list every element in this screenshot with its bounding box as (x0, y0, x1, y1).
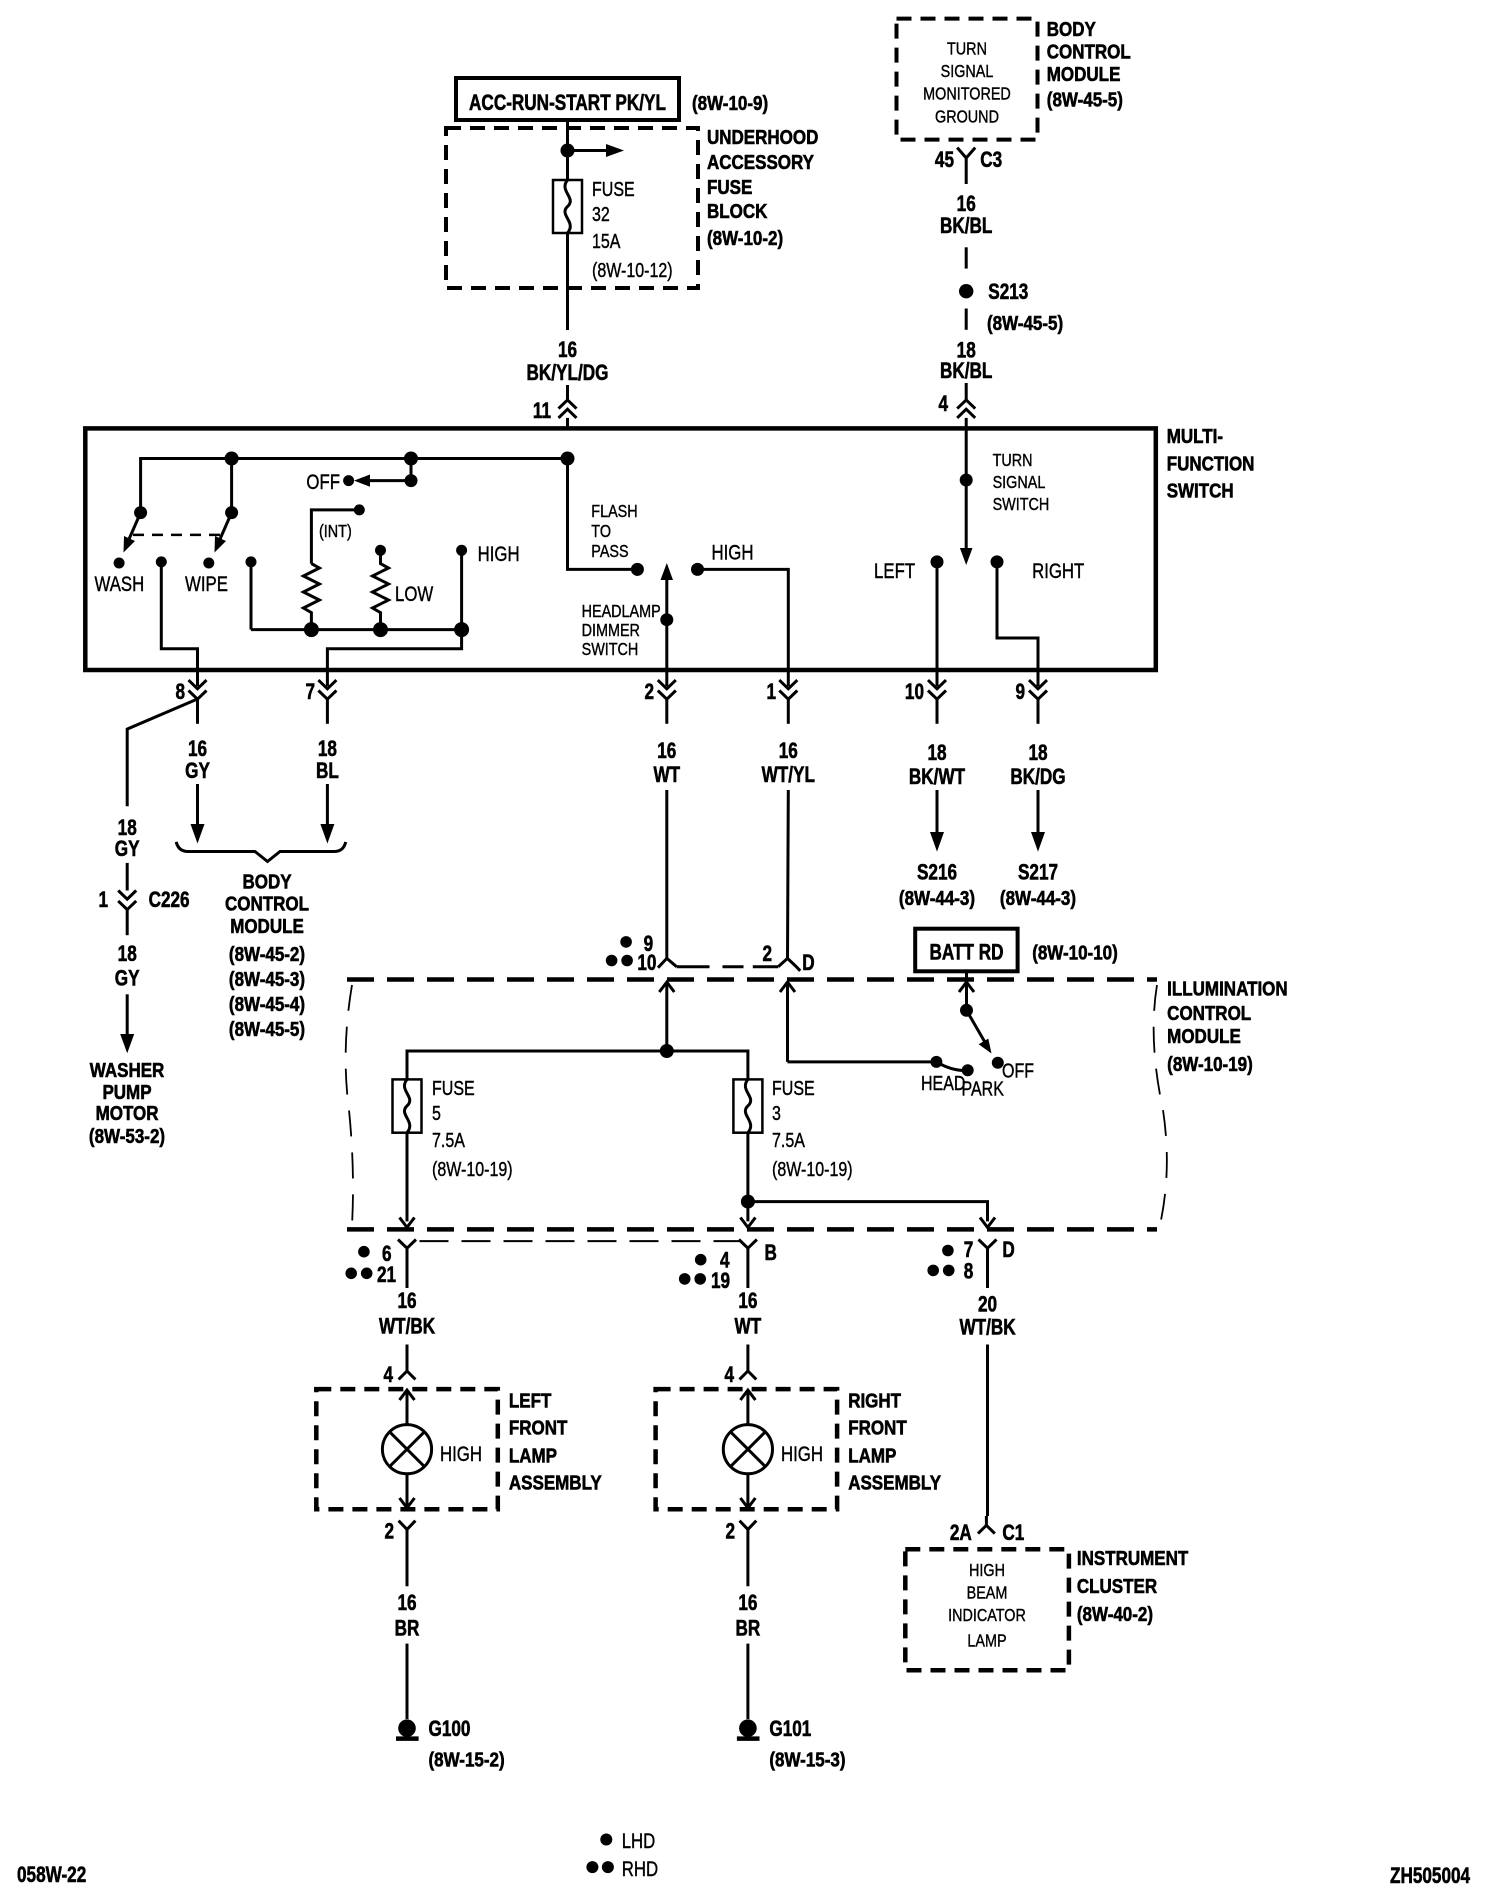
feed rail to fuses (407, 1051, 748, 1079)
svg-text:CONTROL: CONTROL (225, 892, 309, 915)
svg-text:18: 18 (927, 741, 946, 766)
LHD marker (600, 1834, 612, 1846)
svg-text:FUSE: FUSE (592, 178, 635, 200)
wire 18 BL below label with arrow to BCM (326, 784, 329, 830)
svg-text:8: 8 (964, 1259, 974, 1284)
svg-text:ACCESSORY: ACCESSORY (707, 151, 815, 174)
wipe switch arm (217, 513, 232, 546)
wire dimmer to pin 2 (665, 620, 668, 670)
svg-text:3: 3 (772, 1102, 781, 1124)
svg-text:(8W-44-3): (8W-44-3) (1000, 886, 1076, 909)
pin 7 dot + label (942, 1245, 954, 1257)
branch wire to D exit (748, 1202, 988, 1222)
svg-text:(8W-10-19): (8W-10-19) (432, 1158, 513, 1180)
svg-text:GY: GY (115, 967, 140, 992)
svg-text:CONTROL: CONTROL (1047, 40, 1131, 63)
headlamp switch arm (967, 1010, 987, 1044)
entry arrow from fork 10 (659, 982, 674, 1051)
svg-text:LEFT: LEFT (509, 1389, 552, 1412)
wiper output contact (156, 556, 167, 567)
wire below fork D (986, 1254, 989, 1289)
svg-text:BATT RD: BATT RD (930, 940, 1004, 965)
svg-text:WT: WT (653, 763, 680, 788)
wash switch pivot (134, 506, 147, 519)
wire 20 WT/BK down (986, 1345, 989, 1517)
svg-text:WT/BK: WT/BK (379, 1314, 436, 1339)
svg-text:CLUSTER: CLUSTER (1077, 1575, 1158, 1598)
svg-text:RIGHT: RIGHT (848, 1389, 901, 1412)
fork pin 6 (398, 1240, 416, 1254)
entry arrow from BATT RD (959, 971, 974, 1010)
pin 8 dots + label (927, 1265, 939, 1277)
svg-text:MODULE: MODULE (1047, 63, 1121, 86)
arrow to OFF (364, 479, 411, 482)
svg-text:(8W-10-2): (8W-10-2) (707, 227, 783, 250)
svg-text:4: 4 (938, 392, 948, 417)
rail junction LOW (373, 622, 388, 637)
svg-text:FUNCTION: FUNCTION (1167, 452, 1255, 475)
wire to bulb (406, 1390, 409, 1425)
wire fuse3 down (746, 1133, 749, 1222)
wire 16 GY below label with arrow to BCM (196, 784, 199, 830)
svg-text:BK/DG: BK/DG (1010, 765, 1065, 790)
fork 4 to lamp (399, 1371, 416, 1379)
svg-text:PASS: PASS (591, 542, 628, 562)
svg-text:DIMMER: DIMMER (582, 621, 640, 641)
resistor bottom rail (251, 628, 462, 631)
wire to bulb (746, 1390, 749, 1425)
svg-text:7: 7 (305, 680, 315, 705)
svg-text:LHD: LHD (622, 1830, 656, 1853)
wire 16 WT/YL down to fork D (786, 790, 790, 958)
svg-text:S213: S213 (988, 280, 1028, 305)
wash contact dot (114, 558, 125, 569)
svg-text:MODULE: MODULE (1167, 1025, 1241, 1048)
svg-text:16: 16 (397, 1591, 416, 1616)
svg-text:S216: S216 (917, 861, 957, 886)
wire left to pin 10 (936, 562, 939, 670)
junction rail / wire 10 (660, 1044, 674, 1058)
pin 8 connector (175, 670, 206, 724)
svg-text:BODY: BODY (243, 870, 293, 893)
svg-text:C3: C3 (980, 148, 1002, 173)
PARK contact dot (962, 1064, 974, 1076)
left front lamp assembly dashed box (316, 1389, 498, 1509)
wire rail to pin 7 (327, 630, 461, 670)
fuse 3 7.5A (733, 1079, 762, 1132)
svg-text:LOW: LOW (395, 583, 433, 606)
exit arrow fuse5 (400, 1218, 415, 1228)
svg-text:G101: G101 (769, 1717, 811, 1742)
RHD dashed link (677, 965, 779, 968)
OFF contact dot (343, 475, 354, 486)
svg-text:1: 1 (766, 680, 776, 705)
svg-text:UNDERHOOD: UNDERHOOD (707, 126, 818, 149)
wire segment below splice (965, 309, 968, 330)
fork pin 2 D (778, 958, 800, 970)
svg-text:19: 19 (711, 1269, 730, 1294)
svg-text:16: 16 (779, 739, 798, 764)
exit arrow (740, 1498, 755, 1508)
svg-text:LAMP: LAMP (509, 1444, 557, 1467)
instrument cluster dashed box (905, 1549, 1069, 1670)
svg-text:BR: BR (395, 1617, 420, 1642)
svg-text:18: 18 (318, 737, 337, 762)
module right torn edge (1154, 985, 1167, 1225)
svg-text:10: 10 (637, 951, 656, 976)
svg-text:(8W-45-2): (8W-45-2) (229, 943, 305, 966)
svg-text:MODULE: MODULE (230, 915, 304, 938)
svg-text:GY: GY (115, 837, 140, 862)
svg-text:16: 16 (397, 1289, 416, 1314)
svg-text:ILLUMINATION: ILLUMINATION (1167, 977, 1287, 1000)
svg-text:B: B (764, 1241, 776, 1266)
svg-text:ACC-RUN-START PK/YL: ACC-RUN-START PK/YL (469, 91, 666, 116)
svg-text:TURN: TURN (947, 39, 987, 59)
svg-text:8: 8 (175, 680, 185, 705)
high beam bulb (723, 1425, 772, 1474)
connector chevrons pin 11 (559, 400, 577, 418)
svg-text:SIGNAL: SIGNAL (941, 62, 994, 82)
svg-text:058W-22: 058W-22 (17, 1863, 86, 1888)
OFF contact dot (992, 1057, 1004, 1069)
power feed box ACC-RUN-START PK/YL (456, 78, 679, 120)
pin 10 dot markers (606, 955, 618, 967)
svg-text:7.5A: 7.5A (772, 1129, 806, 1151)
svg-text:SWITCH: SWITCH (582, 640, 639, 660)
svg-text:HIGH: HIGH (478, 543, 520, 566)
svg-text:LAMP: LAMP (848, 1444, 896, 1467)
ground G100 (396, 1719, 419, 1738)
svg-text:(8W-44-3): (8W-44-3) (899, 886, 975, 909)
wire bulb to exit (746, 1474, 749, 1508)
svg-text:D: D (1002, 1238, 1014, 1263)
svg-text:OFF: OFF (1002, 1060, 1034, 1082)
svg-text:2: 2 (384, 1519, 394, 1544)
svg-text:PARK: PARK (962, 1078, 1004, 1100)
svg-text:RHD: RHD (622, 1858, 658, 1881)
BCM brace (176, 842, 346, 862)
svg-text:HEADLAMP: HEADLAMP (582, 602, 661, 622)
svg-text:HIGH: HIGH (781, 1443, 823, 1466)
pin 9 dot marker (620, 936, 632, 948)
branch arrow to other circuits (574, 149, 612, 152)
splice S213 (959, 284, 973, 298)
wire below fork 6 (406, 1254, 409, 1289)
svg-text:(8W-10-12): (8W-10-12) (592, 259, 673, 281)
svg-text:FUSE: FUSE (707, 176, 752, 199)
svg-text:WASH: WASH (95, 573, 145, 596)
junction fuse3 branch (741, 1195, 755, 1209)
pin 6 dot + label (358, 1246, 370, 1258)
wire chevron to box (566, 418, 569, 430)
svg-text:C226: C226 (149, 888, 190, 913)
svg-text:OFF: OFF (306, 471, 340, 494)
headlamp switch pivot (960, 1004, 973, 1017)
connector chevrons pin 4 (957, 400, 975, 418)
ground G101 (737, 1719, 760, 1738)
pin 21 dots + label (345, 1268, 357, 1280)
wire wash output to pin 8 (161, 562, 197, 670)
svg-text:WT/YL: WT/YL (762, 763, 815, 788)
wire high beam to pin 1 (698, 569, 789, 670)
svg-text:16: 16 (657, 739, 676, 764)
connector chevrons C226 (118, 891, 136, 910)
svg-text:(8W-10-19): (8W-10-19) (772, 1158, 853, 1180)
svg-text:FUSE: FUSE (772, 1077, 815, 1099)
wire fuse5 to exit arrow (406, 1133, 409, 1222)
pin 10 connector (905, 670, 946, 724)
svg-text:ZH505004: ZH505004 (1390, 1864, 1470, 1889)
svg-text:(8W-45-5): (8W-45-5) (987, 312, 1063, 335)
multi-function switch box (85, 428, 1156, 670)
svg-text:18: 18 (118, 942, 137, 967)
BCM turn signal monitored ground dashed box (897, 19, 1038, 140)
svg-text:BK/BL: BK/BL (940, 359, 992, 384)
wire to C226 (126, 863, 129, 891)
wash switch arm (126, 513, 141, 546)
svg-text:GY: GY (185, 759, 210, 784)
high beam bulb (382, 1425, 431, 1474)
svg-text:SIGNAL: SIGNAL (993, 473, 1046, 493)
svg-text:45: 45 (935, 148, 954, 173)
wire below C226 (126, 910, 129, 936)
svg-text:HIGH: HIGH (969, 1560, 1005, 1580)
exit arrow (400, 1498, 415, 1508)
svg-text:(INT): (INT) (319, 522, 352, 542)
svg-text:MULTI-: MULTI- (1167, 425, 1223, 448)
turn signal feed wire with arrow (965, 430, 968, 552)
svg-text:18: 18 (1028, 741, 1047, 766)
svg-text:BK/YL/DG: BK/YL/DG (527, 361, 609, 386)
entry arrow from fork D (780, 982, 795, 1062)
svg-text:FRONT: FRONT (848, 1416, 907, 1439)
fork pin 10 (658, 958, 677, 967)
svg-text:BEAM: BEAM (967, 1583, 1008, 1603)
wire chevron to box (965, 418, 968, 430)
svg-text:FUSE: FUSE (432, 1077, 475, 1099)
svg-text:2: 2 (762, 942, 772, 967)
svg-text:ASSEMBLY: ASSEMBLY (509, 1471, 602, 1494)
fork 2 below lamp (399, 1521, 416, 1587)
svg-text:G100: G100 (428, 1717, 470, 1742)
module top dashed border (347, 977, 1157, 982)
mechanical link dashed (133, 534, 222, 537)
svg-text:LEFT: LEFT (874, 560, 915, 583)
wire into MFS pin 4 (965, 383, 968, 400)
fuse 5 7.5A (393, 1079, 422, 1132)
svg-text:21: 21 (377, 1263, 396, 1288)
wire from ACC box into fuse block (566, 120, 569, 180)
turn signal pivot node (960, 474, 973, 487)
RHD marker (586, 1861, 598, 1873)
svg-text:(8W-10-19): (8W-10-19) (1167, 1053, 1253, 1076)
HIGH beam contact dot (691, 563, 704, 576)
junction node (561, 144, 575, 158)
svg-text:(8W-53-2): (8W-53-2) (89, 1125, 165, 1148)
svg-text:2: 2 (644, 680, 654, 705)
rail junction INT (304, 622, 319, 637)
svg-text:ASSEMBLY: ASSEMBLY (848, 1471, 941, 1494)
svg-text:1: 1 (98, 888, 108, 913)
svg-text:2: 2 (725, 1519, 735, 1544)
svg-text:(8W-40-2): (8W-40-2) (1077, 1603, 1153, 1626)
HEAD contact dot (930, 1056, 942, 1068)
pin 9 connector (1015, 670, 1047, 724)
svg-text:BK/WT: BK/WT (909, 765, 965, 790)
fork pin 4 B (739, 1240, 757, 1254)
module bottom dashed border (347, 1227, 1157, 1232)
svg-text:HEAD: HEAD (921, 1072, 965, 1094)
HIGH wiper contact dot (456, 545, 467, 556)
svg-text:SWITCH: SWITCH (1167, 479, 1234, 502)
svg-text:9: 9 (1015, 680, 1025, 705)
wipe low-speed contact (246, 556, 257, 567)
underhood accessory fuse block dashed box (446, 128, 698, 288)
svg-text:GROUND: GROUND (935, 107, 999, 127)
wire to lamp connector 4 (406, 1345, 409, 1372)
svg-text:16: 16 (738, 1289, 757, 1314)
pin 1 connector (766, 670, 797, 724)
svg-text:LAMP: LAMP (967, 1631, 1006, 1651)
INT contact dot (354, 504, 365, 515)
svg-text:D: D (802, 951, 814, 976)
flash-to-pass contact dot (631, 563, 644, 576)
svg-text:INDICATOR: INDICATOR (948, 1606, 1026, 1626)
svg-text:(8W-45-3): (8W-45-3) (229, 968, 305, 991)
rail junction HIGH (454, 622, 469, 637)
wire below fork B (746, 1254, 749, 1289)
wire right to pin 9 (997, 562, 1038, 670)
entry arrow into lamp (740, 1390, 755, 1400)
wire into MFS pin 11 (566, 385, 569, 400)
svg-text:HIGH: HIGH (712, 542, 754, 565)
svg-text:16: 16 (188, 737, 207, 762)
svg-text:(8W-10-9): (8W-10-9) (692, 92, 768, 115)
svg-text:TURN: TURN (993, 451, 1033, 471)
svg-text:BODY: BODY (1047, 18, 1097, 41)
pin 4 dot + label (695, 1254, 707, 1266)
wire segment above splice (965, 247, 968, 268)
wire D-branch to HEAD (788, 1060, 937, 1063)
svg-text:11: 11 (533, 399, 551, 424)
svg-text:HIGH: HIGH (440, 1443, 482, 1466)
wire with arrow to washer pump (126, 994, 129, 1040)
svg-text:(8W-45-4): (8W-45-4) (229, 993, 305, 1016)
svg-text:WIPE: WIPE (185, 573, 228, 596)
svg-text:7.5A: 7.5A (432, 1129, 466, 1151)
diagonal wire pin8 to washer branch (127, 700, 196, 807)
svg-text:4: 4 (383, 1363, 393, 1388)
LEFT contact dot (931, 555, 944, 568)
wire below C3 (965, 173, 968, 184)
svg-text:20: 20 (978, 1293, 997, 1318)
selector track HEAD-PARK (936, 1062, 967, 1071)
svg-text:SWITCH: SWITCH (993, 495, 1050, 515)
wipe contact dot (203, 558, 214, 569)
wire 18 BK/WT arrow to S216 (936, 790, 939, 838)
svg-text:4: 4 (724, 1363, 734, 1388)
svg-text:MOTOR: MOTOR (96, 1102, 159, 1125)
wire to resistor rail (250, 562, 253, 630)
LOW contact dot (375, 545, 386, 556)
svg-text:16: 16 (558, 338, 577, 363)
fork 4 to lamp (740, 1371, 757, 1379)
wire to ground (746, 1644, 749, 1719)
svg-text:FLASH: FLASH (591, 502, 637, 522)
wire wipe pivot (230, 459, 233, 513)
wire HIGH to rail (460, 550, 463, 629)
wire to lamp connector 4 (746, 1345, 749, 1372)
svg-text:(8W-15-3): (8W-15-3) (769, 1748, 845, 1771)
wire 18 BK/DG arrow to S217 (1037, 790, 1040, 838)
off contact node (405, 474, 418, 487)
svg-text:PUMP: PUMP (102, 1081, 151, 1104)
svg-text:INSTRUMENT: INSTRUMENT (1077, 1547, 1189, 1570)
INT resistor (303, 510, 359, 630)
svg-text:32: 32 (592, 203, 610, 225)
fork 2 below lamp (740, 1521, 757, 1587)
svg-text:BLOCK: BLOCK (707, 200, 768, 223)
junction off branch (404, 452, 418, 466)
wire to ground (406, 1644, 409, 1719)
junction wipe branch (225, 452, 239, 466)
entry arrow into lamp (400, 1390, 415, 1400)
svg-text:16: 16 (957, 192, 976, 217)
svg-text:2A: 2A (950, 1521, 972, 1546)
svg-text:FRONT: FRONT (509, 1416, 568, 1439)
svg-text:BL: BL (316, 759, 339, 784)
svg-text:BK/BL: BK/BL (940, 214, 992, 239)
connector C3 fork (957, 148, 975, 173)
svg-text:(8W-45-5): (8W-45-5) (1047, 88, 1123, 111)
svg-text:(8W-15-2): (8W-15-2) (429, 1748, 505, 1771)
svg-text:CONTROL: CONTROL (1167, 1002, 1251, 1025)
svg-text:(8W-45-5): (8W-45-5) (229, 1018, 305, 1041)
exit arrow fuse3 (740, 1218, 755, 1228)
fork pin 7 D (979, 1240, 997, 1254)
RHD dashed link bottom (420, 1240, 742, 1242)
fuse 32 15A (553, 180, 582, 233)
svg-text:WT: WT (735, 1314, 762, 1339)
svg-text:(8W-10-10): (8W-10-10) (1032, 941, 1118, 964)
svg-text:BR: BR (736, 1617, 761, 1642)
right front lamp assembly dashed box (656, 1389, 838, 1509)
svg-text:C1: C1 (1002, 1521, 1024, 1546)
svg-text:WASHER: WASHER (90, 1059, 165, 1082)
dimmer switch arm arrow (665, 577, 668, 620)
svg-text:TO: TO (591, 522, 611, 542)
pin 7 connector (305, 670, 336, 724)
svg-text:MONITORED: MONITORED (923, 84, 1011, 104)
pin 2 connector (644, 670, 675, 724)
svg-text:10: 10 (905, 680, 924, 705)
pin 19 dots + label (679, 1273, 691, 1285)
svg-text:RIGHT: RIGHT (1032, 560, 1085, 583)
RIGHT contact dot (991, 555, 1004, 568)
svg-text:WT/BK: WT/BK (959, 1315, 1016, 1340)
internal top bus wire (141, 459, 638, 570)
svg-text:S217: S217 (1018, 861, 1058, 886)
fork 2A C1 (978, 1516, 995, 1534)
junction feed 11 (561, 452, 575, 466)
module left torn edge (346, 985, 353, 1225)
wire off branch (410, 459, 413, 481)
wire 16 WT down to fork 10 (665, 790, 668, 958)
exit arrow D (980, 1218, 995, 1228)
svg-text:15A: 15A (592, 230, 621, 252)
power feed box BATT RD (915, 929, 1017, 972)
